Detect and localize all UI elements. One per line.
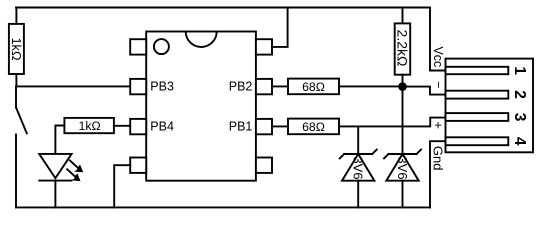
resistor R2 1kΩ — [64, 118, 114, 133]
wire ground rail (bottom) — [16, 206, 430, 208]
IC U1 DIP-8 body — [146, 32, 256, 181]
wire Vcc rail to USB pin 1 — [430, 8, 446, 71]
pin 3 bar — [446, 113, 509, 121]
pin PB2 (right) — [256, 79, 272, 94]
pin Vcc (top-right) — [256, 39, 272, 54]
svg-text:PB4: PB4 — [150, 119, 174, 133]
connector J1 USB-B body — [446, 59, 534, 153]
pin PB3 (left) — [130, 79, 146, 94]
svg-text:2: 2 — [511, 90, 528, 99]
svg-text:PB3: PB3 — [150, 79, 174, 93]
svg-text:1: 1 — [511, 66, 528, 75]
wire USB pin 4 to ground rail — [430, 141, 446, 207]
wire PB2 to R3 — [272, 85, 288, 87]
wire LED cathode to ground rail — [54, 181, 56, 208]
pin PB4 (left) — [130, 119, 146, 134]
wire PB3 net — [16, 85, 130, 87]
svg-text:Vcc: Vcc — [431, 46, 445, 67]
wire D- node to USB pin 2 — [403, 87, 446, 95]
wire IC GND pin to ground rail — [114, 165, 130, 207]
switch S1 — [16, 86, 27, 207]
svg-text:68Ω: 68Ω — [302, 80, 325, 94]
svg-text:1kΩ: 1kΩ — [79, 119, 101, 133]
resistor R4 68Ω — [288, 119, 339, 135]
wire PB1 to R4 — [272, 125, 288, 127]
resistor R5 2.2kΩ — [395, 8, 411, 87]
svg-text:68Ω: 68Ω — [302, 120, 325, 134]
svg-text:PB1: PB1 — [229, 119, 253, 133]
pin PB1 (right) — [256, 119, 272, 134]
zener D2 3V6 — [340, 126, 377, 207]
svg-text:+: + — [431, 121, 446, 129]
pin 1 bar — [446, 67, 509, 74]
svg-text:2.2kΩ: 2.2kΩ — [395, 30, 411, 67]
LED D1 — [39, 154, 83, 181]
svg-text:−: − — [431, 81, 445, 88]
svg-text:3V6: 3V6 — [351, 156, 366, 179]
pin (bottom-right) — [256, 158, 272, 173]
pin GND (bottom-left) — [130, 158, 146, 173]
wire R4 to USB D+ pin — [339, 118, 446, 127]
node D- junction dot — [398, 82, 407, 91]
svg-text:1kΩ: 1kΩ — [9, 37, 24, 61]
wire R2 to PB4 pin — [114, 125, 130, 127]
resistor R1 1kΩ — [9, 8, 24, 87]
svg-text:PB2: PB2 — [229, 79, 253, 93]
wire top Vcc rail — [16, 7, 430, 9]
wire R3 to D- node — [339, 85, 403, 87]
svg-text:3: 3 — [511, 113, 528, 122]
resistor R3 68Ω — [288, 79, 339, 95]
svg-text:3V6: 3V6 — [395, 156, 410, 179]
pin 4 bar — [446, 137, 509, 145]
svg-text:4: 4 — [511, 137, 528, 146]
wire IC Vcc pin to top rail — [272, 8, 288, 47]
pin 2 bar — [446, 91, 509, 99]
wire R2 left lead down to LED — [55, 126, 64, 154]
pin 1 (top-left) — [130, 39, 146, 54]
zener D3 3V6 — [384, 87, 421, 208]
svg-text:Gnd: Gnd — [431, 146, 446, 171]
